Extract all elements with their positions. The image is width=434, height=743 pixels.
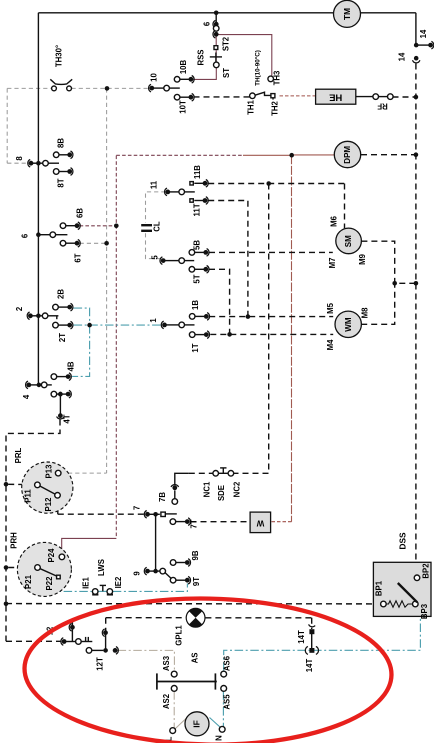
wire maroon bus top horizontal [116, 154, 243, 156]
contact 6B [60, 223, 66, 229]
svg-text:M7: M7 [328, 258, 337, 269]
wire left solid bus [37, 13, 39, 385]
wire teal AS6 to BP3 [224, 617, 421, 671]
resistor BP zigzag [386, 601, 413, 607]
wire 1T to WM M4 [210, 333, 333, 335]
contact P21 [35, 565, 41, 571]
svg-text:IE2: IE2 [114, 576, 123, 588]
terminal 14 hook [428, 43, 433, 48]
contact 7T [170, 519, 176, 525]
contact 11T [190, 199, 193, 202]
contact 9B [170, 560, 176, 566]
pressure switch PRL body [22, 462, 73, 513]
node 6T gray junction [104, 241, 109, 246]
svg-text:1: 1 [149, 318, 158, 323]
svg-text:HE: HE [329, 91, 342, 102]
interference suppressor W [250, 512, 271, 533]
svg-text:11B: 11B [193, 165, 202, 179]
terminal 12T link hook [103, 630, 108, 635]
wire P12 to contact 7 [58, 513, 145, 515]
contact 14T [309, 648, 314, 653]
svg-text:P22: P22 [45, 576, 54, 591]
highlight red ellipse [23, 595, 393, 743]
svg-text:GPL1: GPL1 [175, 625, 184, 646]
wire right border drop [415, 13, 417, 45]
contact 5B [189, 250, 195, 256]
thermostat TH1 contact [250, 93, 256, 99]
switch BP arm [398, 583, 417, 602]
wire LWS inner [98, 590, 107, 592]
switch RSS ST2 contact [214, 46, 218, 50]
terminal 6 hooks [214, 22, 219, 27]
node 14 junction [414, 43, 419, 48]
svg-text:BP2: BP2 [422, 563, 431, 579]
svg-text:9: 9 [133, 571, 142, 576]
svg-text:TM: TM [342, 8, 352, 20]
wire P24 riser [62, 538, 117, 553]
wire GPL1 line left [106, 617, 186, 619]
wire gray bus vertical [106, 88, 108, 473]
svg-text:11: 11 [150, 180, 159, 189]
node RF bus junction [414, 95, 419, 100]
wire 11 common to CL [146, 192, 166, 223]
level switch LWS IE1 [92, 589, 98, 595]
terminal block AS bar [157, 681, 217, 683]
level switch LWS actuator [102, 585, 104, 591]
node P21 border junction [4, 565, 9, 570]
svg-text:LWS: LWS [97, 559, 106, 576]
svg-text:PRL: PRL [14, 447, 23, 463]
contact 5 common [161, 258, 166, 263]
terminal NC2 [228, 471, 234, 477]
contact 8 common [29, 161, 34, 166]
svg-text:6T: 6T [74, 253, 83, 262]
contact P24 [59, 554, 65, 560]
wire 14 stub [416, 44, 429, 46]
switch PRH arm [40, 569, 56, 576]
interference filter IF [185, 712, 209, 736]
contact 10T [174, 94, 180, 100]
wire 5B to SM M7 [209, 251, 333, 253]
wire left border to 12 [6, 640, 62, 642]
node bottom rail junction [4, 602, 9, 607]
wire top border right [361, 12, 416, 14]
svg-text:BP3: BP3 [420, 603, 429, 619]
wire maroon mid bus vertical [291, 155, 293, 521]
wire maroon bus vertical [115, 156, 117, 539]
contact 6T [60, 240, 66, 246]
contact 9 common [145, 569, 150, 574]
svg-text:IF: IF [192, 720, 202, 728]
svg-text:6B: 6B [76, 208, 85, 218]
svg-text:P21: P21 [24, 574, 33, 589]
contact 2 common [28, 313, 33, 318]
terminal 12 hook [70, 625, 75, 630]
wire 7B riser [175, 473, 189, 485]
svg-text:TH2: TH2 [271, 100, 280, 115]
wire top border left [38, 12, 333, 14]
contact BP1 [381, 601, 387, 607]
contact 1T [189, 332, 195, 338]
svg-text:AS3: AS3 [162, 655, 171, 671]
wire SM to right bus [361, 241, 416, 283]
wire 1B to WM M5 [209, 316, 333, 318]
svg-text:RF: RF [377, 101, 388, 110]
switch RF [373, 94, 379, 100]
wire RSS upper maroon [215, 36, 217, 45]
contact 10 common [149, 86, 154, 91]
spin motor SM [336, 228, 362, 254]
svg-text:P12: P12 [44, 497, 53, 512]
svg-text:8T: 8T [57, 178, 66, 187]
wire BP2 stub [416, 562, 418, 574]
wire GPL1 line right [205, 617, 311, 619]
wire W to maroon mid bus [272, 521, 292, 523]
wire RSS to 10B [193, 68, 216, 80]
wire mid solid bus 7-9 [155, 514, 157, 571]
wire HE to RF [356, 96, 373, 98]
pressure switch PRH body [17, 542, 71, 596]
wire gray bus to P13 [61, 472, 107, 474]
svg-text:SM: SM [344, 235, 353, 247]
svg-text:P11: P11 [24, 489, 33, 503]
wire RSS arm [215, 50, 217, 62]
terminal 14T hook [309, 629, 314, 634]
svg-text:5T: 5T [193, 274, 202, 283]
svg-text:IE1: IE1 [82, 576, 91, 588]
contact 12T [86, 648, 92, 654]
svg-text:DPM: DPM [343, 146, 352, 164]
wire 11B drop to NC2 [234, 184, 269, 474]
thermostat TH30 contacts [52, 86, 57, 91]
contact P12 [55, 493, 61, 499]
contact 6 common [36, 232, 41, 237]
switch PRL arm [40, 486, 56, 494]
svg-text:M4: M4 [326, 339, 335, 350]
svg-text:14: 14 [419, 29, 428, 38]
thermostat TH30 arcs [50, 79, 72, 84]
svg-text:NC1: NC1 [203, 481, 212, 497]
wire GPL1 corner [105, 618, 107, 631]
contact 12 bracket [85, 637, 87, 642]
svg-text:11T: 11T [193, 203, 202, 216]
level switch LWS IE2 [107, 589, 113, 595]
svg-text:7T: 7T [190, 519, 199, 528]
terminal N [219, 726, 225, 732]
heater HE [316, 89, 356, 104]
contact 7 common [145, 512, 150, 517]
wire TH30 line left [7, 87, 51, 89]
svg-text:N: N [215, 735, 224, 741]
wire TH1-TH2 arm [255, 92, 271, 95]
node 2T cyan junction [87, 323, 92, 328]
svg-text:9T: 9T [192, 577, 201, 586]
svg-text:AS2: AS2 [162, 693, 171, 709]
contact 4B [51, 374, 57, 380]
svg-text:8B: 8B [57, 138, 66, 148]
svg-text:M9: M9 [358, 253, 367, 264]
wire WM to junction [361, 283, 395, 324]
node 1T junction [227, 332, 232, 337]
wire left gray border [6, 88, 8, 163]
thermostat TH2 contact [271, 94, 275, 98]
switch SDE [218, 472, 228, 474]
svg-text:ST2: ST2 [222, 36, 231, 51]
node 1B junction [246, 314, 251, 319]
wire border to P21 [8, 567, 35, 569]
switch RSS ST contact [214, 62, 220, 68]
wire 5T line [209, 269, 230, 334]
terminal 4T end [58, 413, 63, 418]
node motor bus junction [414, 281, 419, 286]
wire 12T riser [105, 635, 107, 651]
svg-text:4T: 4T [63, 414, 72, 423]
svg-text:AS6: AS6 [223, 655, 232, 671]
wire 4T drop [59, 394, 61, 414]
svg-text:M5: M5 [326, 302, 335, 313]
capacitor CL [141, 224, 152, 226]
wire 11B line [208, 183, 344, 185]
svg-text:2T: 2T [58, 333, 67, 342]
terminal AS3 [171, 671, 177, 677]
wash motor WM [335, 311, 361, 337]
svg-text:7: 7 [133, 506, 142, 510]
wire 12T to AS3 [118, 650, 175, 671]
svg-text:7B: 7B [158, 492, 167, 502]
svg-text:12T: 12T [96, 657, 105, 671]
svg-text:5: 5 [151, 255, 160, 260]
svg-text:M8: M8 [361, 307, 370, 318]
drain pump DPM [334, 141, 360, 167]
contact 2B [53, 304, 59, 310]
svg-text:10: 10 [150, 73, 159, 82]
wire bottom rail [6, 603, 383, 605]
node maroon DPM junction [289, 153, 294, 158]
svg-text:14: 14 [398, 52, 407, 61]
contact P22 [57, 575, 61, 579]
svg-text:10B: 10B [179, 59, 188, 74]
wire AS2 to L [173, 691, 175, 727]
wire 4T to left border [6, 420, 60, 642]
svg-text:P24: P24 [47, 548, 56, 563]
contact 11 common [165, 190, 170, 195]
svg-text:SDE: SDE [217, 485, 226, 501]
svg-text:RSS: RSS [197, 49, 206, 65]
contact BP2 [414, 575, 420, 581]
wire TH30 to node gray [72, 87, 150, 89]
svg-text:14T: 14T [305, 659, 314, 673]
svg-text:TH1: TH1 [247, 99, 256, 114]
svg-text:CL: CL [153, 221, 162, 232]
contact 4 common [26, 383, 31, 388]
svg-text:AS: AS [191, 653, 200, 664]
wire 11T line [208, 201, 248, 317]
svg-text:1T: 1T [191, 343, 200, 352]
thermostat TH3 contact [268, 76, 274, 82]
wire border to P11 [8, 483, 35, 485]
svg-text:4B: 4B [67, 361, 76, 371]
contact 7B [172, 499, 178, 505]
node motor corner junction [392, 281, 397, 286]
wire 2T to contact 1 [74, 324, 161, 326]
wire 14T drop [311, 618, 313, 629]
terminal NC1 [213, 471, 219, 477]
node 11B junction [266, 181, 271, 186]
node 12T junction [103, 648, 108, 653]
svg-text:M6: M6 [330, 215, 339, 226]
wire gray border to contact 8 [7, 162, 28, 164]
wire 12 drop [71, 620, 73, 642]
svg-text:BP1: BP1 [375, 580, 384, 596]
svg-text:8: 8 [15, 156, 24, 161]
terminal AS6 [221, 671, 227, 677]
contact 1 common [162, 323, 167, 328]
svg-text:TH30°: TH30° [55, 45, 64, 67]
svg-text:TH3: TH3 [273, 70, 282, 85]
contact 2T [53, 322, 59, 328]
contact P11 [35, 482, 41, 488]
wire 6B to maroon bus [80, 225, 117, 227]
contact 8T [53, 169, 59, 175]
wire IF to N [210, 718, 221, 728]
wire 2B down to 2T [74, 308, 90, 325]
terminal L [170, 728, 176, 734]
svg-text:14T: 14T [297, 630, 306, 644]
wire RF to right bus [393, 96, 416, 98]
svg-text:WM: WM [344, 317, 353, 332]
svg-text:6: 6 [203, 21, 212, 26]
contact 5T [189, 267, 195, 273]
svg-text:ST: ST [222, 68, 231, 78]
wire 7B to NC1 [189, 472, 213, 474]
svg-text:2B: 2B [57, 289, 66, 299]
svg-text:TH(10-90°C): TH(10-90°C) [254, 50, 262, 86]
wire P12 drop [57, 499, 59, 515]
svg-text:P13: P13 [45, 464, 54, 479]
svg-text:6: 6 [21, 233, 30, 238]
contact 10B [174, 77, 180, 83]
terminal AS5 [221, 686, 227, 692]
node DPM bus junction [414, 152, 419, 157]
node 4T junction [58, 392, 63, 397]
contact P13 [55, 470, 61, 476]
svg-text:W: W [256, 519, 264, 528]
svg-text:5B: 5B [193, 240, 202, 250]
node TH30 gray junction [105, 86, 110, 91]
svg-text:10T: 10T [179, 100, 188, 114]
contact BP3 [413, 601, 419, 607]
wire DPM to right bus [361, 154, 416, 156]
wire 10T to TH1 [194, 96, 250, 98]
wire 7T to W box [191, 521, 250, 523]
svg-text:DSS: DSS [398, 532, 408, 550]
contact 8B [53, 152, 59, 158]
svg-text:9B: 9B [191, 550, 200, 560]
wire P22 to LWS [59, 581, 92, 592]
switch RSS actuator [210, 56, 222, 58]
wire branch down to 4B [72, 325, 90, 376]
contact 11B [190, 182, 193, 185]
svg-text:2: 2 [15, 306, 24, 311]
wire TH2 to HE [280, 95, 316, 97]
wire right dashed bus [415, 64, 417, 563]
wire 6T to gray bus [80, 242, 107, 244]
wire IE2 to 9T [113, 584, 188, 592]
contact 12 common [62, 639, 67, 644]
contact 4T [51, 391, 57, 397]
wire node 6 top stub [215, 13, 217, 23]
svg-text:1B: 1B [191, 300, 200, 310]
node P11 border junction [4, 482, 9, 487]
contact 9T [170, 577, 176, 583]
lamp GPL1 [186, 608, 205, 627]
svg-text:NC2: NC2 [233, 481, 242, 497]
timer motor TM [334, 0, 361, 27]
terminal AS2 [171, 686, 177, 692]
svg-text:AS5: AS5 [223, 694, 232, 710]
wire AS5 to N [222, 691, 224, 726]
svg-text:PRH: PRH [10, 532, 19, 549]
wire RF bridge [378, 96, 388, 98]
wire node to DPM [292, 154, 335, 156]
wire ST2 branch to TH3 [218, 35, 271, 76]
door switch DSS box [373, 562, 431, 616]
contact 1B [189, 314, 195, 320]
wire 14T link [311, 632, 313, 651]
node 6B maroon junction [114, 224, 119, 229]
wire L to IF [175, 719, 186, 729]
wire CL to 5 common [146, 233, 161, 260]
node on top border [214, 11, 219, 16]
wire 11B to SM [344, 184, 346, 229]
svg-text:4: 4 [22, 394, 31, 399]
terminal 14 lower [414, 56, 419, 61]
